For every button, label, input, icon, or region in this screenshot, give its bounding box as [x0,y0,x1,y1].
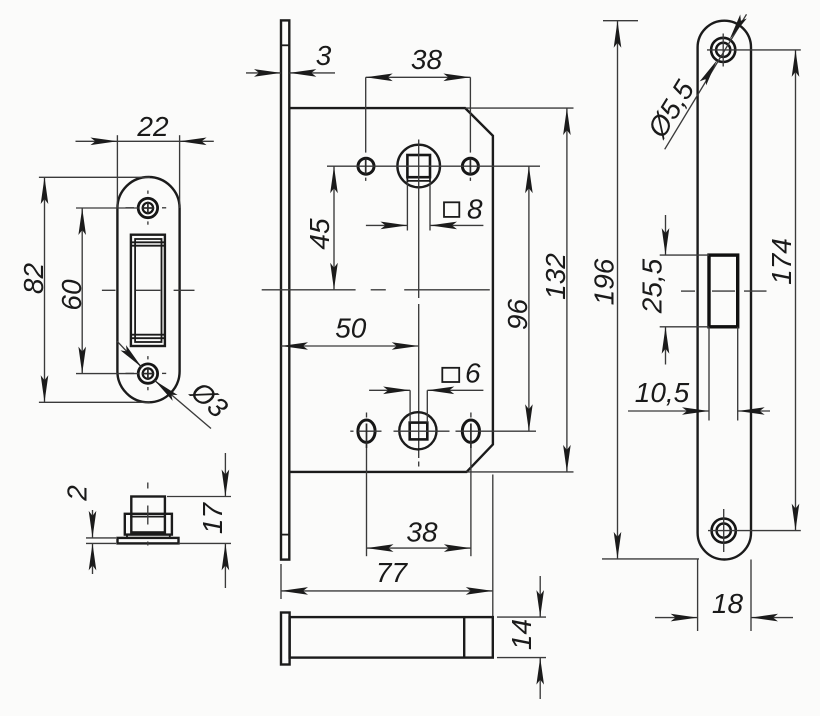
front faceplate top screw hole [711,34,735,67]
svg-text:196: 196 [589,258,620,305]
section view box mid line [130,516,165,518]
dim 6 [369,387,483,423]
dim 8 label square [444,202,459,217]
lower right slot hole [462,420,479,442]
dim 132 [465,108,573,472]
strike latch box outer [131,235,165,346]
upper left hole crosshair [365,77,367,181]
upper right fixing hole [462,158,478,174]
dim 8 [366,182,484,230]
dim 45 [330,166,338,290]
svg-text:25,5: 25,5 [637,258,668,314]
svg-text:50: 50 [335,313,367,344]
section view feet [127,535,170,538]
section view centerline [147,483,149,546]
top hole centerline [707,49,801,51]
dim 10.5 [628,327,770,421]
svg-text:8: 8 [467,194,483,225]
latch window centerline [681,290,767,292]
dim 6 label square [442,368,459,382]
bottom view faceplate cap [281,613,290,665]
dim 82 [39,177,150,402]
bottom view magnet divider [463,617,465,658]
svg-text:14: 14 [506,619,537,650]
front faceplate bottom screw hole [712,509,736,552]
dim 3 [246,69,335,77]
upper axis centerline horizontal [327,165,540,167]
upper right hole crosshair [469,77,471,181]
strike plate lower screw hole [138,364,157,383]
upper left fixing hole [358,158,374,174]
strike plate outline [117,177,179,402]
dim 2 [86,510,116,574]
dim 38 bottom [367,544,471,552]
spindle square 8mm [407,155,430,182]
dim 38 top [366,74,471,82]
svg-text:38: 38 [406,517,438,548]
dim 17 [167,453,231,588]
section view wide box [125,514,172,535]
lower left slot hole [358,420,375,442]
svg-text:45: 45 [304,218,335,250]
dim 25.5 [660,215,709,365]
strike latch box top hatch [131,242,165,245]
svg-text:6: 6 [465,358,481,389]
magnet latch window [709,255,738,327]
lock faceplate side strip [281,20,289,559]
bottom hole centerline [708,530,801,532]
strike latch box bottom hatch [131,335,165,339]
dim 18 [655,560,793,632]
faceplate strip ticks [281,45,289,534]
svg-text:174: 174 [766,238,797,285]
dim 96 [525,166,533,431]
strike plate centerline [102,289,195,291]
spindle square 6mm [410,423,428,440]
spindle circle upper [397,145,440,188]
section view flat plate [118,538,179,544]
dim 196 [602,21,699,559]
dim 50 [281,342,419,350]
body horizontal centerline [262,289,490,291]
svg-text:22: 22 [136,111,169,142]
upper screw hole centerline ticks [126,191,167,225]
section view top box [131,497,165,533]
svg-text:82: 82 [18,263,49,295]
diameter 3 leader [117,341,211,428]
dim 60 [76,208,139,374]
lower left hole crosshair [366,413,368,557]
dim 14 [497,576,546,699]
svg-text:18: 18 [712,588,744,619]
lower axis centerline horizontal [350,430,536,432]
lower right hole crosshair [470,413,472,557]
dim 174 [792,50,800,531]
svg-text:17: 17 [197,502,228,535]
svg-text:96: 96 [502,299,533,331]
svg-text:Ø3: Ø3 [184,375,234,424]
spindle circle lower [399,412,436,449]
svg-text:2: 2 [62,485,93,502]
diameter 5.5 leader [665,14,747,149]
spindle axis vertical [418,140,420,467]
svg-text:Ø5,5: Ø5,5 [641,75,700,144]
bottom view lock body bar [290,617,493,658]
svg-text:38: 38 [411,44,443,75]
svg-text:10,5: 10,5 [635,377,690,408]
svg-text:60: 60 [56,279,87,311]
svg-text:77: 77 [376,557,409,588]
lower screw hole centerline ticks [126,356,167,390]
strike latch box inner [135,239,161,342]
lock body outline [289,108,493,472]
dim 77 [281,475,493,618]
front faceplate outline [698,21,751,560]
strike plate upper screw hole [138,198,157,217]
svg-text:3: 3 [316,40,332,71]
svg-text:132: 132 [540,253,571,300]
dim 22 [76,135,214,208]
